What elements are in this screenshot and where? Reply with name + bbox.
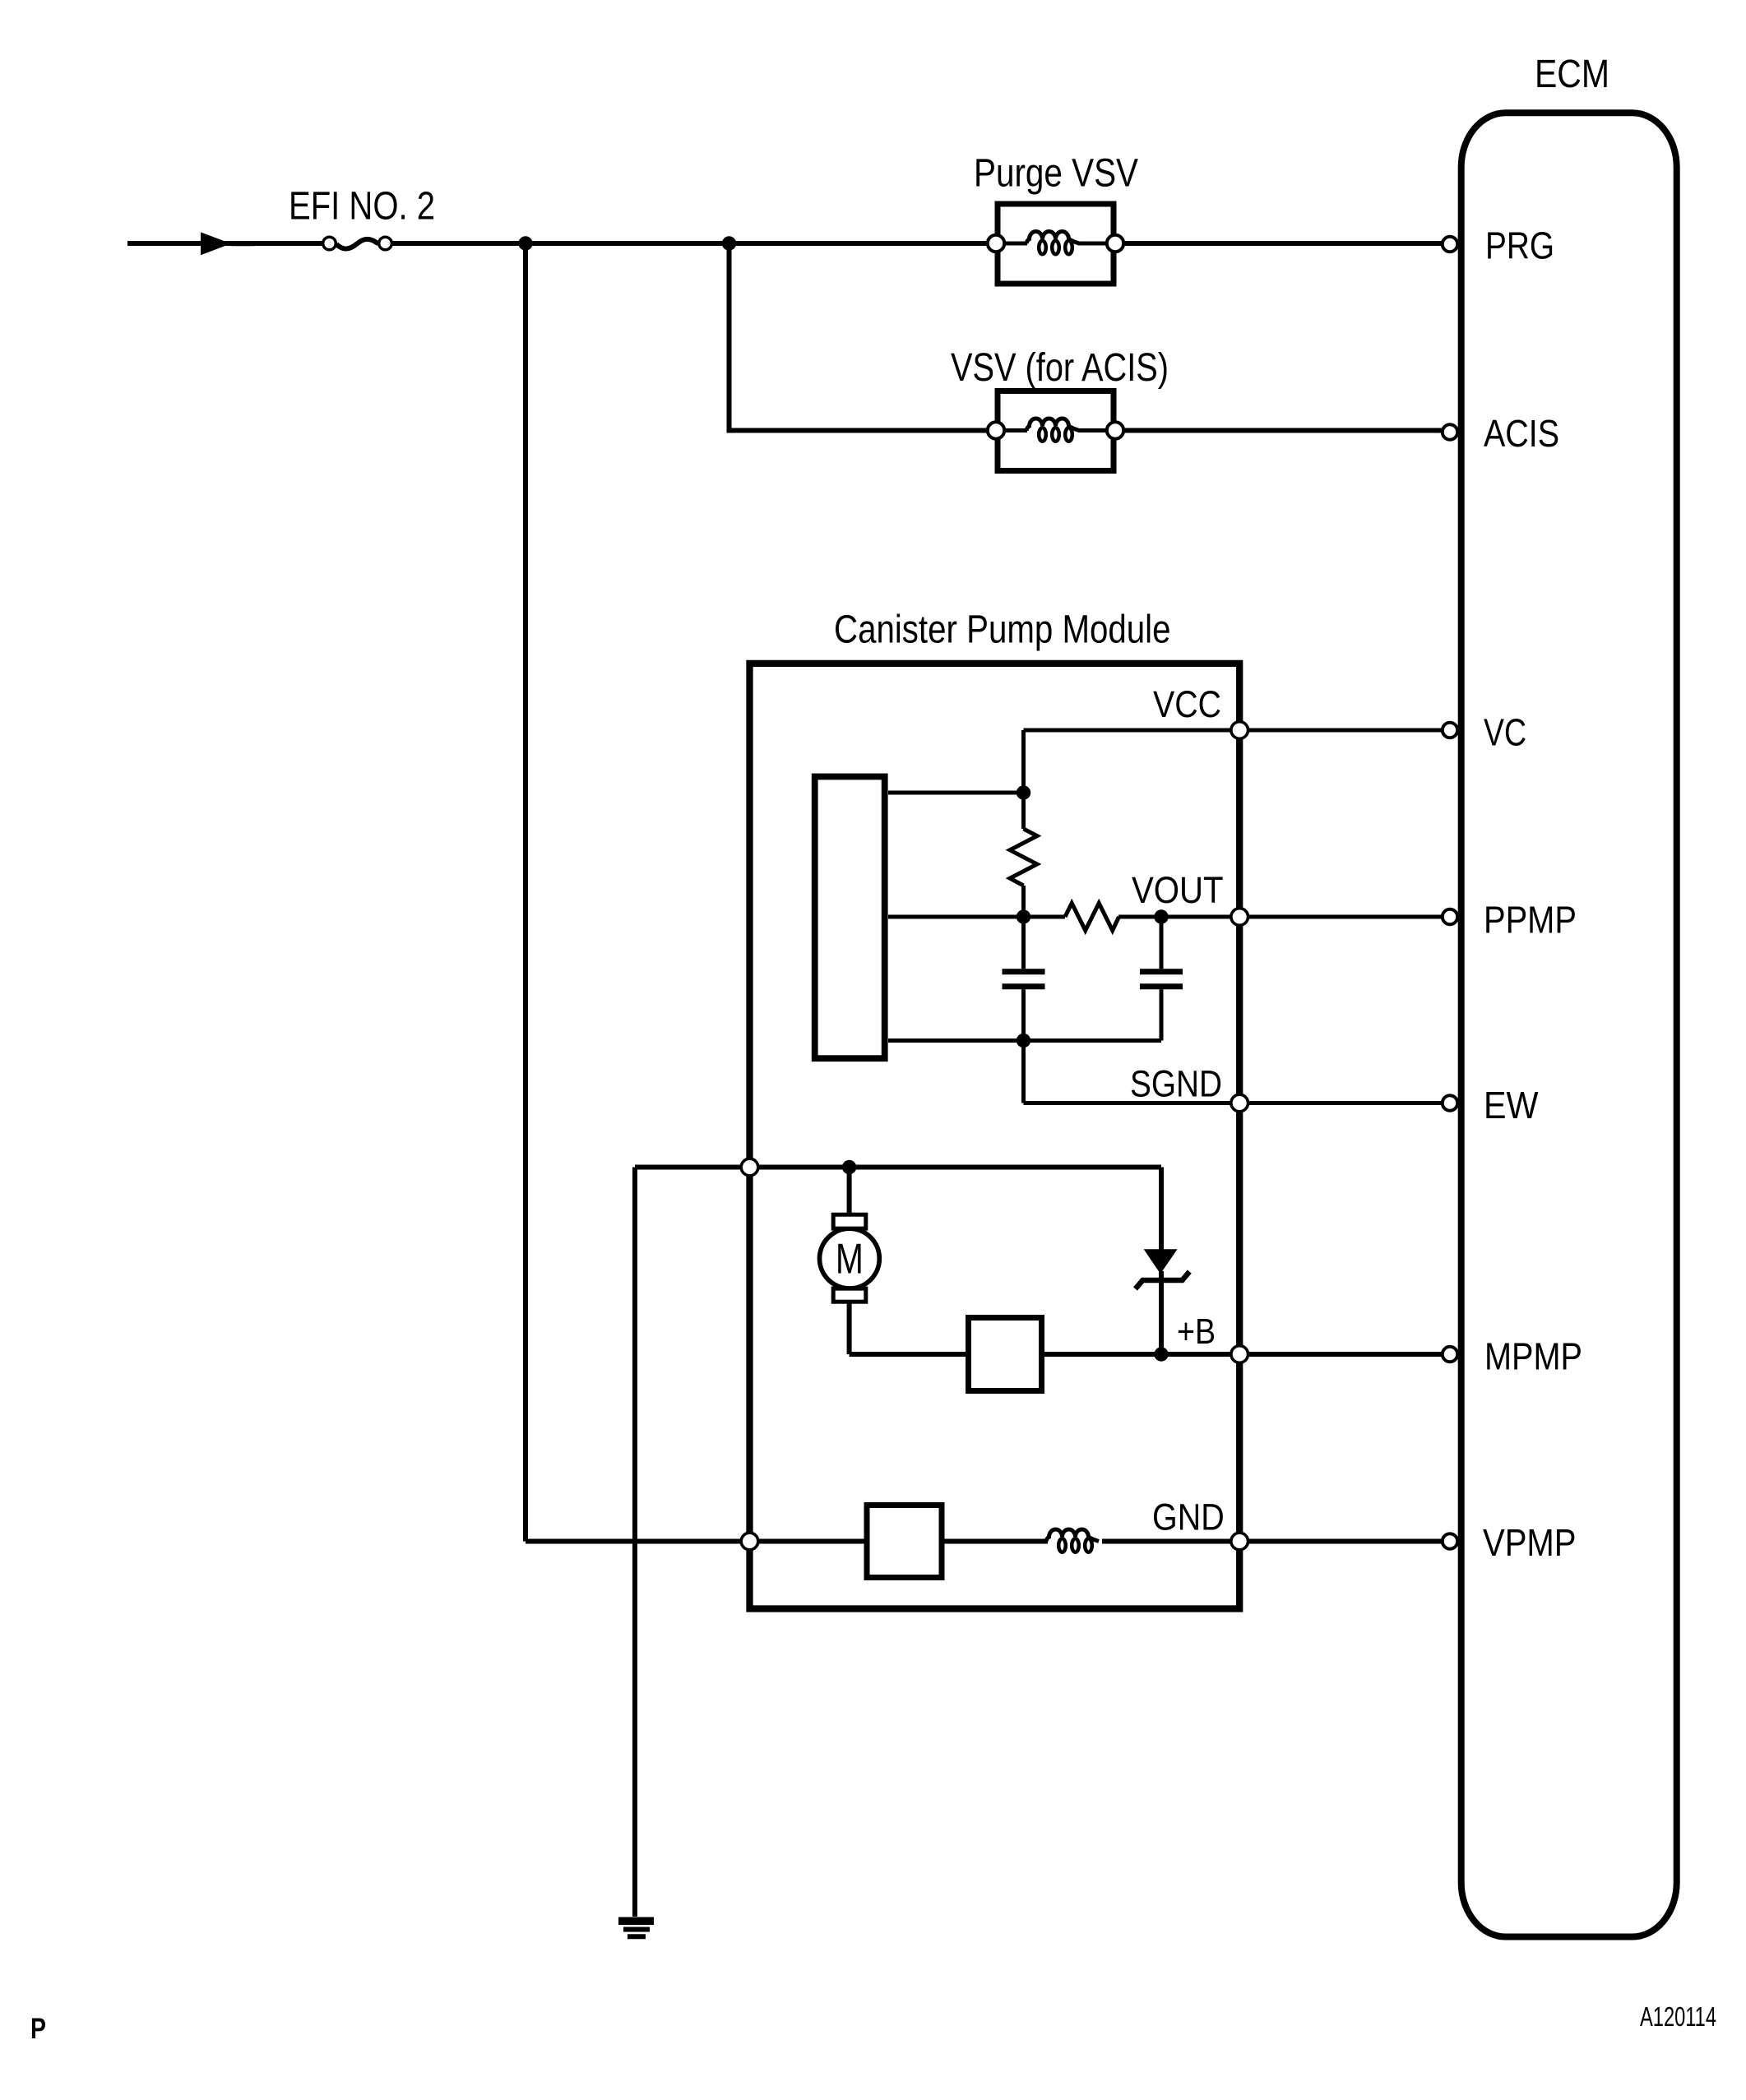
svg-text:VOUT: VOUT [1132, 869, 1224, 911]
svg-text:MPMP: MPMP [1484, 1335, 1582, 1378]
svg-text:+B: +B [1177, 1311, 1216, 1352]
svg-text:EFI NO. 2: EFI NO. 2 [289, 184, 435, 229]
svg-text:VC: VC [1484, 711, 1526, 754]
svg-text:PRG: PRG [1485, 224, 1554, 267]
svg-text:SGND: SGND [1130, 1063, 1222, 1105]
svg-text:Purge VSV: Purge VSV [974, 151, 1139, 196]
svg-text:GND: GND [1152, 1496, 1225, 1538]
svg-text:A120114: A120114 [1640, 2001, 1716, 2032]
svg-text:VSV (for ACIS): VSV (for ACIS) [951, 345, 1169, 390]
svg-text:PPMP: PPMP [1484, 899, 1577, 941]
svg-text:EW: EW [1484, 1084, 1539, 1126]
svg-text:ACIS: ACIS [1484, 412, 1559, 455]
svg-text:VPMP: VPMP [1483, 1521, 1577, 1564]
svg-text:ECM: ECM [1535, 52, 1609, 96]
svg-text:P: P [30, 2013, 46, 2045]
svg-text:VCC: VCC [1153, 683, 1221, 725]
svg-text:M: M [836, 1235, 864, 1283]
svg-text:Canister Pump Module: Canister Pump Module [834, 608, 1171, 652]
